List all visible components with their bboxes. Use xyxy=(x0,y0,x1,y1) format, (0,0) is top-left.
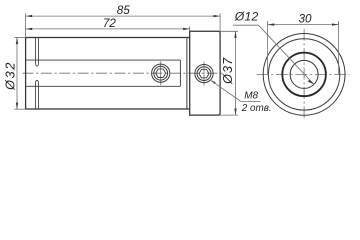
leader M8 line xyxy=(210,80,260,102)
leader Ø12 line xyxy=(233,25,314,84)
flange screw hex socket xyxy=(199,69,209,78)
dimension line 30 xyxy=(268,24,339,26)
leader M8 arrow xyxy=(210,80,216,84)
dimension line 72 xyxy=(26,28,190,30)
end view vertical centerline xyxy=(303,29,305,120)
flange screw M8 inner circle xyxy=(197,67,211,81)
circle Ø37 xyxy=(263,34,345,116)
svg-text:72: 72 xyxy=(103,17,117,30)
body screw M8 vertical centerline xyxy=(160,61,162,85)
svg-text:Ø32: Ø32 xyxy=(3,61,17,91)
extension line left face (for 85 and 72) xyxy=(25,13,27,37)
slot (bottom) xyxy=(36,80,39,109)
flange screw M8 outer circle xyxy=(195,65,213,83)
body screw M8 outer circle xyxy=(152,64,170,82)
dim Ø32 extension bottom xyxy=(15,108,26,110)
extension line flange right (for 85) xyxy=(219,13,221,31)
circle Ø12 xyxy=(290,60,318,88)
body screw hex socket xyxy=(156,69,166,78)
slot (top) xyxy=(36,38,39,67)
dimension line Ø32 xyxy=(16,38,18,110)
svg-text:85: 85 xyxy=(117,4,131,17)
dim 30 extension right xyxy=(338,21,340,74)
extension line flange front (for 72) xyxy=(189,26,191,31)
cylinder body outline xyxy=(26,38,190,110)
flange screw M8 vertical centerline xyxy=(203,62,205,86)
body screw M8 inner circle xyxy=(154,66,168,80)
dim Ø32 extension top xyxy=(15,37,26,39)
end view horizontal centerline xyxy=(257,73,350,75)
circle Ø30 xyxy=(268,39,339,110)
bore lines xyxy=(26,60,181,86)
svg-text:2 отв.: 2 отв. xyxy=(241,103,272,114)
circle Ø20 (thick) xyxy=(282,53,326,97)
centerline (side view axis) xyxy=(23,72,225,74)
leader Ø12 arrow xyxy=(308,80,314,84)
dim Ø37 extension bottom xyxy=(220,114,238,116)
svg-text:30: 30 xyxy=(298,13,312,26)
dimension line Ø37 xyxy=(235,31,237,115)
dim 30 extension left xyxy=(267,21,269,74)
dimension line 85 xyxy=(26,15,221,17)
svg-text:M8: M8 xyxy=(244,91,258,102)
dim Ø37 extension top xyxy=(220,30,238,32)
svg-text:Ø12: Ø12 xyxy=(234,10,259,24)
flange outline xyxy=(190,31,220,115)
svg-text:Ø37: Ø37 xyxy=(221,57,235,85)
groove edge at body/flange junction xyxy=(186,38,188,110)
